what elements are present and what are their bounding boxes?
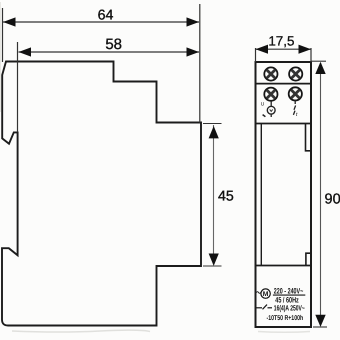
svg-text:64: 64: [98, 7, 114, 23]
svg-text:U: U: [261, 102, 265, 108]
svg-text:M: M: [263, 291, 269, 298]
svg-text:90: 90: [325, 192, 340, 208]
svg-text:58: 58: [105, 36, 122, 53]
svg-text:45: 45: [218, 188, 234, 204]
svg-text:16(4)A 250V~: 16(4)A 250V~: [274, 303, 305, 312]
svg-text:-10T50 R+100h: -10T50 R+100h: [267, 314, 304, 322]
svg-text:220 - 240V~: 220 - 240V~: [274, 286, 304, 295]
svg-text:17,5: 17,5: [268, 34, 294, 49]
